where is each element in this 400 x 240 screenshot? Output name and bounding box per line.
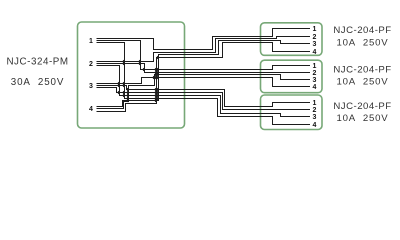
svg-text:NJC-204-PF: NJC-204-PF [333, 65, 391, 76]
svg-text:4: 4 [313, 84, 317, 91]
svg-text:1: 1 [313, 63, 317, 70]
svg-text:4: 4 [89, 106, 93, 113]
svg-text:3: 3 [313, 77, 317, 84]
connector P3 NJC-204-PF body (bottom) [261, 95, 323, 130]
wire crossover hops [118, 56, 158, 102]
svg-text:NJC-204-PF: NJC-204-PF [333, 101, 391, 112]
connector J1 NJC-324-PM body [78, 22, 185, 128]
connector P1 NJC-204-PF body (top) [261, 23, 323, 56]
wire J1.3 to P3.1 [97, 86, 311, 107]
wire J1.4 to P1.3 [97, 41, 311, 107]
pin labels P2 [313, 63, 317, 91]
svg-text:4: 4 [313, 122, 317, 129]
wire J1.4 to P1.4 [97, 43, 311, 112]
wire J1.2 to P1.2 [97, 37, 311, 62]
svg-text:10A 250V: 10A 250V [336, 37, 388, 48]
svg-text:2: 2 [89, 61, 93, 68]
wire J1.3 to P3.2 [97, 88, 311, 110]
svg-text:1: 1 [313, 26, 317, 33]
svg-text:1: 1 [89, 38, 93, 45]
svg-text:3: 3 [89, 83, 93, 90]
connector P2 NJC-204-PF body (middle) [261, 60, 323, 92]
wire J1.2 to P3.3 [97, 66, 311, 117]
svg-text:2: 2 [313, 34, 317, 41]
svg-text:30A 250V: 30A 250V [11, 77, 64, 88]
wire J1.1 to P1.1 [97, 29, 311, 50]
svg-text:1: 1 [313, 100, 317, 107]
wire J1.3 to P2.4 [97, 78, 311, 87]
wire J1.4 to P2.3 [97, 75, 311, 109]
svg-text:NJC-204-PF: NJC-204-PF [333, 25, 391, 36]
svg-text:10A 250V: 10A 250V [336, 77, 388, 88]
svg-text:3: 3 [313, 114, 317, 121]
wire J1.1 to P2.1 [97, 41, 311, 70]
wire J1.2 to P2.2 [97, 64, 311, 73]
pin labels P3 [313, 100, 317, 129]
svg-text:3: 3 [313, 41, 317, 48]
svg-text:2: 2 [313, 70, 317, 77]
wire J1.1 to P3.4 [97, 43, 311, 125]
svg-text:NJC-324-PM: NJC-324-PM [6, 57, 68, 68]
pin labels P1 [313, 26, 317, 56]
svg-text:4: 4 [313, 49, 317, 56]
svg-text:2: 2 [313, 107, 317, 114]
svg-text:10A 250V: 10A 250V [336, 113, 388, 124]
